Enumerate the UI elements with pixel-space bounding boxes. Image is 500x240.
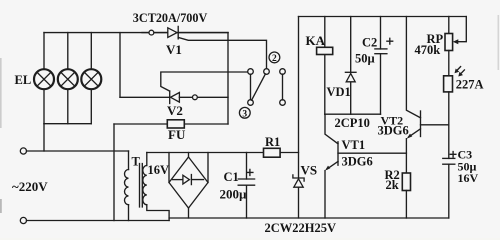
switch contact top left bbox=[248, 69, 254, 75]
wire node KA VD1 C2 bbox=[325, 113, 381, 115]
thyristor V1 bbox=[142, 26, 267, 68]
resistor R2 bbox=[402, 173, 410, 218]
wire lamp branches top bbox=[44, 33, 91, 70]
wire top bus corner down to FU bbox=[227, 33, 229, 124]
svg-text:3DG6: 3DG6 bbox=[342, 155, 373, 169]
capacitor C3 bbox=[443, 125, 455, 218]
wire R1 to rail bbox=[280, 152, 298, 154]
wire DC plus rail bbox=[147, 152, 264, 154]
svg-text:227A: 227A bbox=[456, 78, 484, 92]
svg-text:16V: 16V bbox=[148, 163, 170, 177]
switch contact bottom right bbox=[280, 100, 286, 106]
terminal mains L bbox=[20, 148, 26, 154]
transformer T primary bbox=[125, 151, 129, 221]
svg-text:50µ: 50µ bbox=[355, 52, 375, 66]
svg-text:3DG6: 3DG6 bbox=[378, 124, 409, 138]
wire bus down to V2 bbox=[119, 33, 121, 98]
wire lamp drop to mains bbox=[43, 124, 45, 151]
wire switch right link bbox=[282, 74, 284, 100]
zener diode VS bbox=[293, 175, 304, 187]
resistor R1 bbox=[264, 148, 281, 157]
wire lamp top bus bbox=[44, 32, 228, 34]
switch contact top right bbox=[280, 69, 286, 75]
relay coil KA bbox=[317, 17, 333, 115]
terminal mains N bbox=[20, 217, 26, 223]
svg-text:2: 2 bbox=[272, 54, 277, 64]
bridge rectifier bbox=[169, 153, 208, 219]
terminal circle V2 anode bbox=[193, 95, 198, 100]
svg-text:VS: VS bbox=[301, 163, 318, 178]
svg-text:~220V: ~220V bbox=[12, 179, 48, 194]
photoresistor 227A bbox=[444, 51, 465, 124]
svg-text:3CT20A/700V: 3CT20A/700V bbox=[133, 11, 208, 25]
svg-text:2k: 2k bbox=[386, 178, 399, 192]
capacitor C1 bbox=[238, 153, 254, 219]
svg-text:C1: C1 bbox=[224, 170, 239, 184]
node label 2 bbox=[269, 52, 280, 64]
diode VD1 bbox=[345, 17, 356, 115]
transistor VT1 bbox=[325, 114, 406, 218]
terminal circle V1 anode bbox=[149, 30, 154, 35]
wire bottom bus right bbox=[169, 218, 449, 221]
transformer T secondary bbox=[143, 153, 169, 219]
thyristor V2 bbox=[120, 72, 248, 104]
scan edge artifact bottom left bbox=[0, 199, 2, 213]
svg-text:470k: 470k bbox=[415, 43, 441, 57]
node label 3 bbox=[239, 107, 250, 119]
svg-text:2CW22H25V: 2CW22H25V bbox=[265, 221, 337, 235]
lamp EL 3 bbox=[81, 69, 101, 89]
switch contact bottom left bbox=[248, 100, 254, 106]
svg-text:V1: V1 bbox=[166, 42, 182, 57]
svg-text:2CP10: 2CP10 bbox=[335, 116, 370, 130]
svg-text:C2: C2 bbox=[362, 36, 377, 50]
svg-text:200µ: 200µ bbox=[220, 187, 248, 202]
svg-text:R1: R1 bbox=[265, 135, 280, 149]
wire FU drop to neutral bbox=[113, 124, 115, 221]
switch wiper bbox=[252, 74, 266, 100]
svg-text:3: 3 bbox=[242, 109, 247, 119]
switch contact top middle bbox=[264, 69, 270, 75]
lamp EL 2 bbox=[58, 69, 78, 89]
wire VS rail bbox=[298, 17, 300, 219]
wire control top bus bbox=[299, 16, 467, 18]
wire bottom bus left bbox=[27, 220, 170, 222]
label C1 plus bbox=[247, 169, 253, 175]
transistor VT2 bbox=[406, 17, 448, 174]
svg-text:16V: 16V bbox=[458, 171, 479, 185]
svg-text:V2: V2 bbox=[167, 103, 183, 118]
capacitor C2 bbox=[375, 17, 387, 115]
scan edge artifact right bbox=[498, 15, 500, 70]
wire lamp bottom bus bbox=[44, 123, 91, 125]
svg-text:VD1: VD1 bbox=[327, 85, 351, 99]
svg-text:EL: EL bbox=[15, 73, 32, 87]
fuse FU bbox=[114, 120, 228, 128]
wire mains L to transformer bbox=[27, 150, 129, 152]
wire lamp branches bottom bbox=[44, 89, 91, 124]
svg-text:KA: KA bbox=[306, 33, 326, 48]
wire switch left link bbox=[250, 74, 252, 99]
scan edge artifact left bbox=[0, 58, 2, 128]
potentiometer RP bbox=[445, 17, 466, 51]
lamp EL 1 bbox=[34, 69, 54, 89]
label C2 plus bbox=[387, 38, 393, 44]
svg-text:T: T bbox=[132, 155, 141, 169]
label C3 plus bbox=[450, 152, 456, 158]
transformer core bbox=[140, 164, 143, 208]
svg-text:FU: FU bbox=[168, 127, 186, 142]
svg-text:VT1: VT1 bbox=[342, 138, 366, 152]
